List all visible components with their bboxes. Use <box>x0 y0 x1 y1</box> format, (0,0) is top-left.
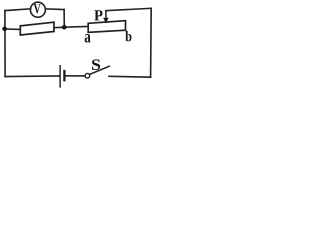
voltmeter V1 circle <box>30 2 45 17</box>
switch pivot circle <box>85 73 90 78</box>
wiper stem wire <box>105 11 107 19</box>
label b <box>125 31 131 42</box>
wire top-right <box>106 8 151 10</box>
wire switch to battery <box>66 75 86 77</box>
resistor R body <box>20 22 54 35</box>
wiper arrowhead <box>103 18 108 24</box>
wire node to potentiometer <box>64 26 88 29</box>
wire left node to resistor <box>5 28 21 30</box>
wire top-left <box>5 9 31 11</box>
label S <box>92 59 100 70</box>
wire resistor to right node <box>54 26 64 29</box>
switch S blade <box>89 66 109 74</box>
label P <box>94 10 102 20</box>
wire corner down to node <box>63 10 65 27</box>
wire voltmeter to corner <box>46 8 65 11</box>
node junction dot left <box>2 27 7 32</box>
wire right edge <box>150 8 153 77</box>
wire left edge <box>4 11 6 77</box>
wire battery to bottom-left corner <box>5 75 59 78</box>
potentiometer P body <box>88 21 125 33</box>
label a <box>85 34 91 43</box>
battery short plate <box>63 70 65 82</box>
battery long plate <box>59 65 61 88</box>
wire bottom-right to switch <box>109 75 151 78</box>
label V <box>34 4 41 13</box>
node junction dot right <box>62 25 67 30</box>
